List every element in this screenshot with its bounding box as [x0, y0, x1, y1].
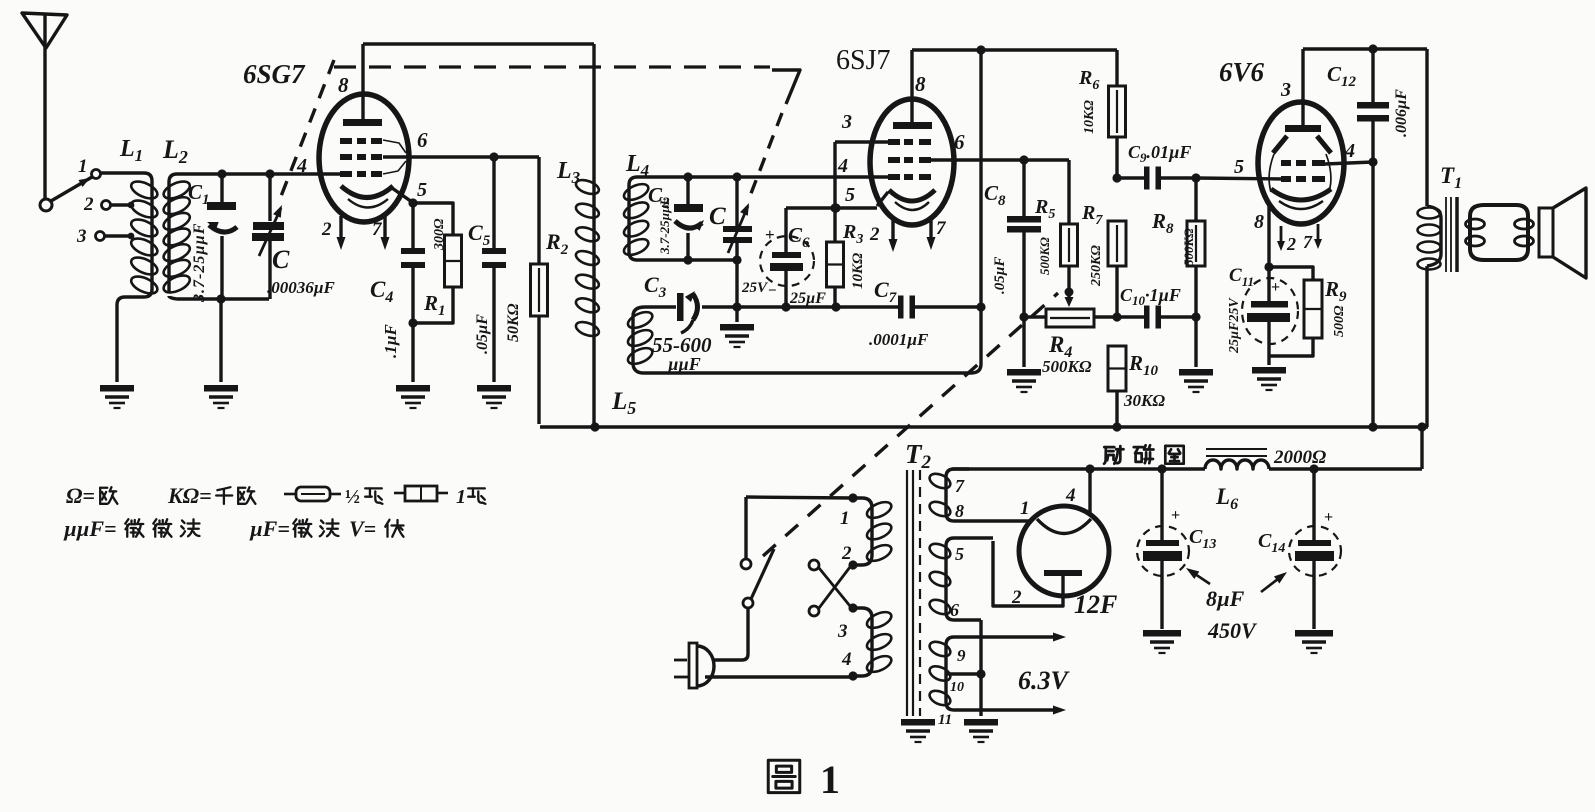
svg-text:.006µF: .006µF — [1393, 89, 1410, 137]
svg-text:C: C — [709, 203, 726, 230]
svg-text:3: 3 — [1280, 79, 1291, 101]
svg-text:6SG7: 6SG7 — [243, 59, 306, 89]
svg-text:V=: V= — [349, 516, 376, 541]
svg-text:C: C — [272, 245, 290, 274]
svg-text:500Ω: 500Ω — [1332, 305, 1347, 337]
svg-text:6.3V: 6.3V — [1018, 666, 1071, 695]
svg-text:Ω=: Ω= — [66, 483, 95, 508]
svg-text:500KΩ: 500KΩ — [1042, 357, 1092, 376]
svg-text:4: 4 — [841, 649, 852, 670]
svg-text:5: 5 — [1234, 156, 1244, 178]
svg-text:500KΩ: 500KΩ — [1181, 228, 1196, 266]
svg-text:½: ½ — [345, 486, 360, 508]
svg-text:.0001µF: .0001µF — [869, 330, 929, 349]
svg-text:50KΩ: 50KΩ — [505, 303, 522, 342]
svg-text:300Ω: 300Ω — [432, 218, 447, 251]
svg-text:+: + — [765, 225, 775, 244]
svg-text:.1µF: .1µF — [381, 323, 400, 358]
svg-text:+: + — [1171, 507, 1180, 524]
svg-text:30KΩ: 30KΩ — [1123, 391, 1165, 410]
svg-text:10: 10 — [950, 680, 964, 695]
svg-text:+: + — [1271, 279, 1280, 296]
svg-text:µµF=: µµF= — [63, 516, 117, 541]
svg-text:450V: 450V — [1207, 618, 1258, 643]
svg-text:1: 1 — [78, 156, 88, 177]
svg-text:25µF: 25µF — [789, 290, 826, 307]
svg-text:25V: 25V — [741, 280, 769, 296]
svg-text:1: 1 — [456, 486, 466, 508]
svg-text:8: 8 — [955, 501, 964, 521]
svg-text:1: 1 — [840, 508, 850, 529]
svg-text:4: 4 — [837, 155, 848, 177]
svg-text:8: 8 — [338, 73, 349, 97]
svg-text:7: 7 — [955, 476, 965, 496]
svg-text:−: − — [768, 283, 777, 299]
svg-text:2: 2 — [83, 194, 94, 215]
svg-text:+: + — [1324, 509, 1333, 526]
svg-text:8: 8 — [1254, 211, 1264, 233]
svg-text:250KΩ: 250KΩ — [1089, 245, 1104, 287]
svg-text:5: 5 — [845, 184, 855, 206]
svg-text:3: 3 — [76, 226, 87, 247]
svg-text:1: 1 — [1020, 498, 1030, 519]
svg-text:2000Ω: 2000Ω — [1273, 447, 1326, 468]
svg-text:6V6: 6V6 — [1219, 57, 1265, 87]
svg-text:6: 6 — [417, 128, 428, 152]
svg-text:2: 2 — [321, 219, 332, 240]
svg-text:7: 7 — [1303, 232, 1313, 252]
svg-text:9: 9 — [957, 646, 966, 665]
svg-text:4: 4 — [296, 155, 307, 177]
svg-text:3.7-25µµF: 3.7-25µµF — [191, 223, 208, 303]
svg-text:11: 11 — [938, 712, 952, 728]
svg-text:2: 2 — [1286, 234, 1296, 254]
svg-text:4: 4 — [1065, 485, 1076, 506]
svg-text:3.7-25µµF: 3.7-25µµF — [657, 196, 672, 255]
svg-text:.05µF: .05µF — [474, 314, 491, 354]
svg-text:µF=: µF= — [249, 516, 290, 541]
svg-text:2: 2 — [1011, 587, 1022, 608]
svg-text:3: 3 — [837, 621, 848, 642]
svg-text:3: 3 — [841, 111, 852, 133]
svg-text:500KΩ: 500KΩ — [1037, 237, 1052, 275]
svg-text:7: 7 — [372, 219, 383, 240]
svg-text:5: 5 — [417, 179, 427, 201]
svg-text:6: 6 — [950, 600, 959, 620]
svg-text:1: 1 — [820, 757, 840, 802]
svg-text:12F: 12F — [1074, 590, 1117, 619]
svg-text:KΩ=: KΩ= — [167, 483, 212, 508]
svg-text:2: 2 — [869, 224, 880, 245]
svg-text:7: 7 — [936, 218, 947, 239]
svg-text:5: 5 — [955, 544, 964, 564]
svg-text:C10·1µF: C10·1µF — [1120, 285, 1181, 308]
svg-text:.00036µF: .00036µF — [267, 278, 336, 297]
svg-text:.05µF: .05µF — [992, 257, 1008, 294]
svg-text:2: 2 — [841, 543, 852, 564]
svg-text:4: 4 — [1344, 140, 1355, 162]
svg-text:6SJ7: 6SJ7 — [836, 45, 890, 76]
svg-text:8: 8 — [915, 72, 926, 96]
svg-text:6: 6 — [954, 130, 965, 154]
svg-text:25µF25V: 25µF25V — [1227, 297, 1242, 354]
svg-text:10KΩ: 10KΩ — [850, 253, 866, 289]
svg-text:10KΩ: 10KΩ — [1082, 100, 1097, 134]
svg-text:C9.01µF: C9.01µF — [1128, 142, 1191, 165]
svg-text:8µF: 8µF — [1206, 586, 1245, 611]
svg-text:µµF: µµF — [667, 354, 701, 374]
